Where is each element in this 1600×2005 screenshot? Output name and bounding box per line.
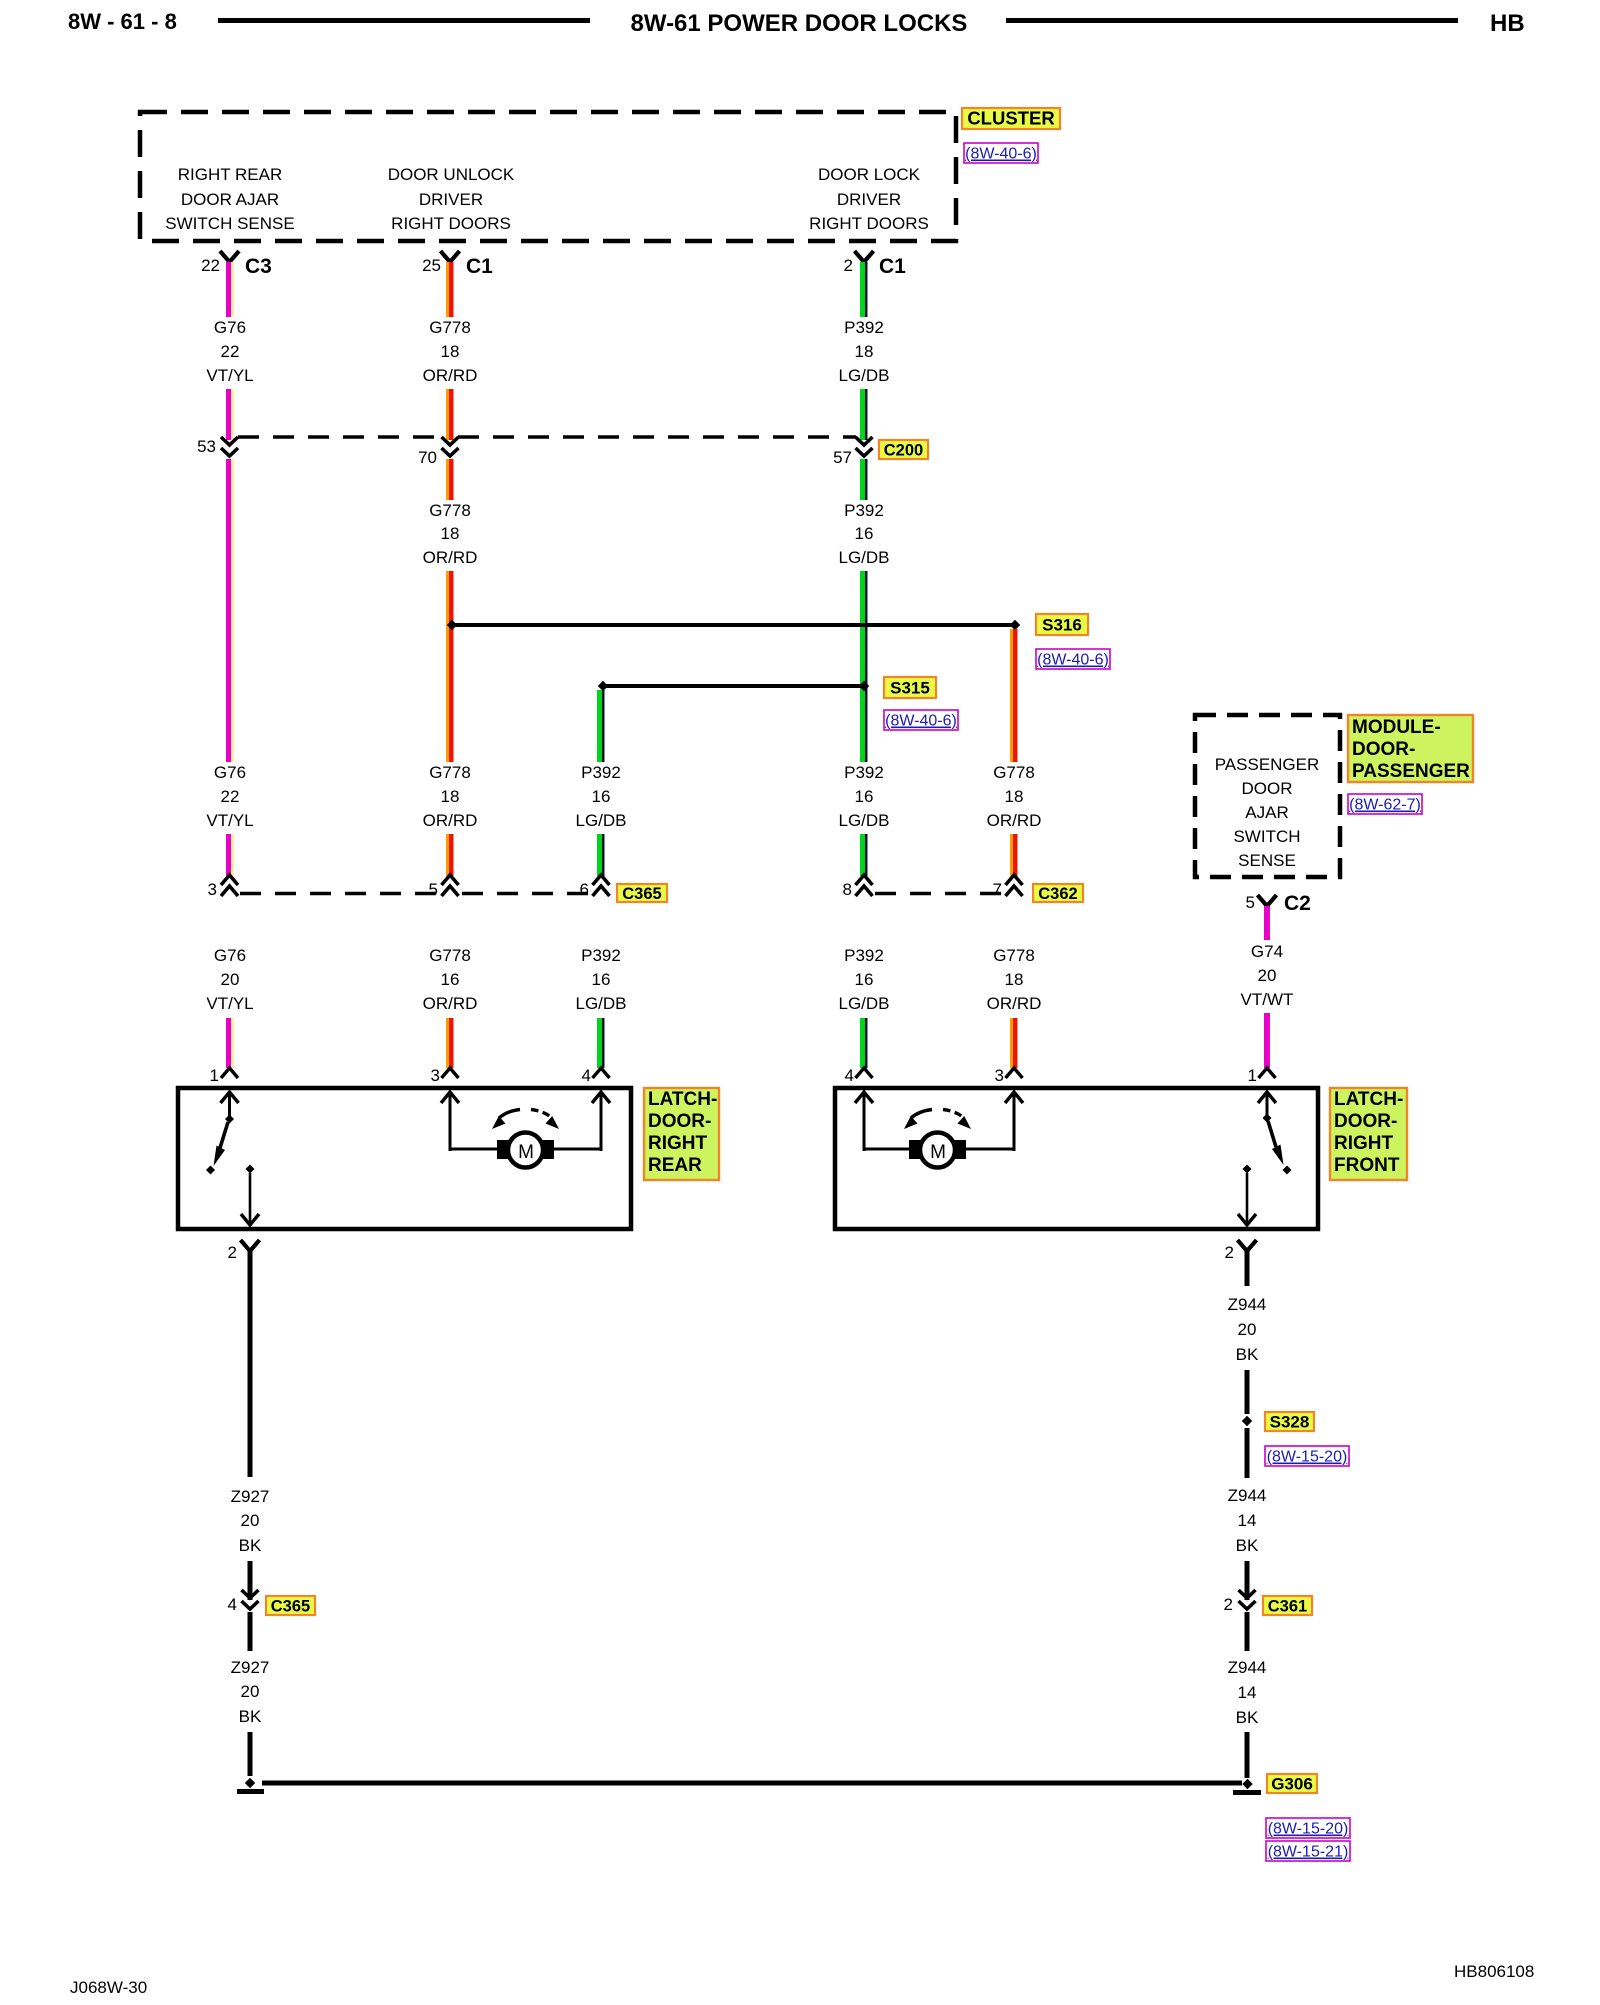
motor rotation arrows left latch xyxy=(499,1110,520,1119)
svg-text:OR/RD: OR/RD xyxy=(423,811,478,830)
wire P392 down through splices xyxy=(860,571,865,762)
svg-text:8: 8 xyxy=(843,880,852,899)
lock motor circuit right latch left branch xyxy=(863,1092,866,1151)
wire G76 to latch pin 1 xyxy=(226,1018,231,1068)
ajar switch arrow pin 1 xyxy=(228,1092,231,1116)
wire G778 below C200 xyxy=(446,459,449,500)
label LATCH-DOOR-RIGHT-REAR xyxy=(644,1088,719,1180)
svg-text:REAR: REAR xyxy=(648,1155,702,1176)
wire P392 to C362 xyxy=(860,834,865,876)
svg-text:DOOR LOCK: DOOR LOCK xyxy=(818,165,921,184)
reference (8W-40-6) for S316 xyxy=(1036,649,1110,669)
svg-text:20: 20 xyxy=(1238,1320,1257,1339)
motor rotation arrows right latch xyxy=(911,1110,932,1119)
svg-text:OR/RD: OR/RD xyxy=(987,994,1042,1013)
svg-text:(8W-40-6): (8W-40-6) xyxy=(965,146,1037,163)
reference (8W-15-20) for G306 xyxy=(1266,1818,1350,1838)
svg-text:4: 4 xyxy=(228,1595,237,1614)
svg-text:20: 20 xyxy=(221,970,240,989)
svg-text:8W-61 POWER DOOR LOCKS: 8W-61 POWER DOOR LOCKS xyxy=(631,10,968,37)
svg-text:57: 57 xyxy=(833,448,852,467)
connector C362 dashed line xyxy=(875,892,1003,896)
svg-text:AJAR: AJAR xyxy=(1245,803,1288,822)
svg-text:5: 5 xyxy=(1246,893,1255,912)
svg-text:(8W-15-20): (8W-15-20) xyxy=(1267,1449,1348,1466)
svg-text:DOOR UNLOCK: DOOR UNLOCK xyxy=(388,165,515,184)
wire G778 to right latch pin 3 xyxy=(1010,1018,1013,1068)
svg-text:2: 2 xyxy=(844,256,853,275)
wire Z927 20 BK from pin 2 xyxy=(248,1251,253,1477)
wire Z944 20 BK from pin 2 xyxy=(1245,1251,1250,1286)
svg-text:LG/DB: LG/DB xyxy=(838,811,889,830)
svg-text:18: 18 xyxy=(1005,970,1024,989)
svg-text:4: 4 xyxy=(582,1066,591,1085)
svg-text:MODULE-: MODULE- xyxy=(1352,717,1441,738)
wire Z944 to S328 xyxy=(1245,1370,1250,1414)
svg-text:C365: C365 xyxy=(271,1597,310,1615)
wire G778 to C362 xyxy=(1010,834,1013,876)
svg-text:OR/RD: OR/RD xyxy=(423,548,478,567)
svg-text:2: 2 xyxy=(1224,1595,1233,1614)
svg-text:C362: C362 xyxy=(1038,885,1077,903)
ground junction G306 xyxy=(1242,1779,1252,1789)
svg-text:20: 20 xyxy=(1258,966,1277,985)
svg-text:1: 1 xyxy=(1248,1066,1257,1085)
svg-text:P392: P392 xyxy=(581,946,621,965)
svg-text:2: 2 xyxy=(1225,1243,1234,1262)
svg-text:16: 16 xyxy=(592,787,611,806)
svg-text:VT/YL: VT/YL xyxy=(206,994,253,1013)
svg-text:HB806108: HB806108 xyxy=(1454,1962,1534,1981)
splice S315 bus line xyxy=(603,684,864,688)
svg-text:PASSENGER: PASSENGER xyxy=(1352,761,1470,782)
svg-text:LG/DB: LG/DB xyxy=(575,994,626,1013)
svg-text:4: 4 xyxy=(845,1066,854,1085)
svg-text:22: 22 xyxy=(201,256,220,275)
svg-text:S315: S315 xyxy=(890,678,930,697)
svg-text:C3: C3 xyxy=(245,255,272,278)
svg-text:Z944: Z944 xyxy=(1228,1486,1267,1505)
label S315 xyxy=(884,677,936,698)
ajar switch lever right latch xyxy=(1263,1114,1272,1123)
lock motor circuit right branch xyxy=(600,1092,603,1151)
svg-text:Z927: Z927 xyxy=(231,1487,270,1506)
svg-text:FRONT: FRONT xyxy=(1334,1155,1400,1176)
svg-text:BK: BK xyxy=(239,1536,262,1555)
splice S316 bus line xyxy=(452,623,1015,627)
ground bus wire xyxy=(262,1781,1242,1786)
svg-text:DOOR AJAR: DOOR AJAR xyxy=(181,190,279,209)
wire Z944 to ground G306 xyxy=(1245,1732,1250,1778)
label LATCH-DOOR-RIGHT-FRONT xyxy=(1330,1088,1407,1180)
wire G74 to latch pin 1 xyxy=(1264,1013,1270,1068)
svg-text:VT/YL: VT/YL xyxy=(206,811,253,830)
motor M right latch xyxy=(909,1140,921,1159)
svg-text:G778: G778 xyxy=(993,946,1035,965)
label C362 xyxy=(1033,884,1083,902)
svg-text:G778: G778 xyxy=(429,501,471,520)
motor M left latch xyxy=(497,1140,509,1159)
svg-text:RIGHT REAR: RIGHT REAR xyxy=(178,165,283,184)
reference (8W-62-7) for module xyxy=(1348,794,1422,814)
svg-text:18: 18 xyxy=(1005,787,1024,806)
svg-text:G306: G306 xyxy=(1271,1774,1313,1793)
wire Z944 below S328 xyxy=(1245,1428,1250,1478)
svg-text:8W - 61 - 8: 8W - 61 - 8 xyxy=(68,9,177,34)
svg-text:P392: P392 xyxy=(844,763,884,782)
svg-text:RIGHT DOORS: RIGHT DOORS xyxy=(391,214,511,233)
wire G778 continued xyxy=(446,389,449,440)
svg-text:VT/WT: VT/WT xyxy=(1241,990,1294,1009)
svg-text:(8W-15-21): (8W-15-21) xyxy=(1268,1844,1349,1861)
svg-text:C2: C2 xyxy=(1284,892,1311,915)
wire P392 16 LG/DB branch from S315 xyxy=(597,690,602,762)
svg-text:20: 20 xyxy=(241,1511,260,1530)
svg-text:16: 16 xyxy=(855,524,874,543)
svg-text:OR/RD: OR/RD xyxy=(987,811,1042,830)
svg-text:18: 18 xyxy=(441,342,460,361)
wire P392 to C365 xyxy=(597,834,602,876)
svg-text:DOOR: DOOR xyxy=(1242,779,1293,798)
header rule right xyxy=(1006,18,1458,23)
svg-text:LG/DB: LG/DB xyxy=(575,811,626,830)
svg-text:SWITCH: SWITCH xyxy=(1233,827,1300,846)
ajar switch lever xyxy=(225,1115,234,1124)
svg-text:DRIVER: DRIVER xyxy=(837,190,901,209)
svg-text:S328: S328 xyxy=(1270,1412,1310,1431)
svg-text:6: 6 xyxy=(580,880,589,899)
lock motor circuit left branch xyxy=(449,1092,452,1151)
svg-text:DOOR-: DOOR- xyxy=(1334,1111,1397,1132)
svg-text:RIGHT: RIGHT xyxy=(1334,1133,1394,1154)
svg-text:Z927: Z927 xyxy=(231,1658,270,1677)
component CLUSTER (dashed box) xyxy=(140,112,956,241)
svg-text:M: M xyxy=(518,1142,534,1163)
splice S328 xyxy=(1242,1416,1252,1426)
svg-text:LG/DB: LG/DB xyxy=(838,548,889,567)
label C361 xyxy=(1263,1596,1312,1615)
reference (8W-40-6) for S315 xyxy=(884,710,958,730)
wire G778 to S316 xyxy=(446,571,449,762)
svg-text:G74: G74 xyxy=(1251,942,1283,961)
ground bar left xyxy=(237,1789,264,1794)
svg-text:G76: G76 xyxy=(214,763,246,782)
svg-text:14: 14 xyxy=(1238,1511,1257,1530)
svg-text:OR/RD: OR/RD xyxy=(423,366,478,385)
svg-text:C365: C365 xyxy=(622,885,661,903)
wire Z927 to ground xyxy=(248,1732,253,1776)
svg-text:16: 16 xyxy=(441,970,460,989)
svg-text:(8W-40-6): (8W-40-6) xyxy=(1037,652,1109,669)
svg-text:DRIVER: DRIVER xyxy=(419,190,483,209)
svg-text:G76: G76 xyxy=(214,946,246,965)
ajar switch fixed contact to pin 2 right latch xyxy=(1243,1165,1252,1174)
svg-text:DOOR-: DOOR- xyxy=(648,1111,711,1132)
label CLUSTER xyxy=(962,108,1060,129)
ajar switch arrow right latch pin 1 xyxy=(1266,1092,1269,1116)
svg-text:BK: BK xyxy=(1236,1345,1259,1364)
header rule left xyxy=(218,18,590,23)
svg-text:70: 70 xyxy=(418,448,437,467)
svg-text:LG/DB: LG/DB xyxy=(838,366,889,385)
svg-text:SENSE: SENSE xyxy=(1238,851,1296,870)
svg-text:25: 25 xyxy=(422,256,441,275)
label MODULE-DOOR-PASSENGER xyxy=(1348,715,1473,782)
svg-text:18: 18 xyxy=(441,524,460,543)
svg-text:Z944: Z944 xyxy=(1228,1295,1267,1314)
svg-text:HB: HB xyxy=(1490,10,1525,37)
svg-text:P392: P392 xyxy=(844,318,884,337)
svg-text:(8W-62-7): (8W-62-7) xyxy=(1349,797,1421,814)
wire G778 18 OR/RD from C1 xyxy=(446,262,449,317)
svg-text:J068W-30: J068W-30 xyxy=(70,1978,147,1997)
wire G74 20 VT/WT from C2 xyxy=(1264,906,1270,940)
svg-text:18: 18 xyxy=(441,787,460,806)
wire G76 to C365 xyxy=(226,834,231,876)
svg-text:G778: G778 xyxy=(429,946,471,965)
svg-text:22: 22 xyxy=(221,342,240,361)
component LATCH-DOOR-RIGHT-REAR box xyxy=(178,1088,631,1229)
component MODULE-DOOR-PASSENGER (dashed box) xyxy=(1195,715,1340,877)
svg-text:14: 14 xyxy=(1238,1683,1257,1702)
svg-text:RIGHT DOORS: RIGHT DOORS xyxy=(809,214,929,233)
wire Z927 below C365 xyxy=(248,1612,253,1651)
connector C365 dashed line xyxy=(240,892,440,896)
reference (8W-15-20) for S328 xyxy=(1265,1446,1349,1466)
svg-text:20: 20 xyxy=(241,1682,260,1701)
svg-text:16: 16 xyxy=(855,787,874,806)
wire Z944 to C361 xyxy=(1245,1561,1250,1600)
label C200 xyxy=(879,440,928,459)
svg-text:3: 3 xyxy=(208,880,217,899)
wire G76 below C200 xyxy=(226,459,231,762)
svg-text:(8W-40-6): (8W-40-6) xyxy=(885,713,957,730)
svg-text:16: 16 xyxy=(592,970,611,989)
svg-text:P392: P392 xyxy=(844,501,884,520)
svg-text:16: 16 xyxy=(855,970,874,989)
svg-text:BK: BK xyxy=(239,1707,262,1726)
wire G778 to latch pin 3 xyxy=(446,1018,449,1068)
lock motor circuit right latch right branch xyxy=(1013,1092,1016,1151)
svg-text:G778: G778 xyxy=(429,763,471,782)
svg-text:BK: BK xyxy=(1236,1536,1259,1555)
wire P392 to latch pin 4 xyxy=(597,1018,602,1068)
svg-text:LATCH-: LATCH- xyxy=(1334,1089,1403,1110)
svg-text:5: 5 xyxy=(429,880,438,899)
svg-text:BK: BK xyxy=(1236,1708,1259,1727)
svg-text:SWITCH SENSE: SWITCH SENSE xyxy=(165,214,294,233)
svg-text:VT/YL: VT/YL xyxy=(206,366,253,385)
svg-text:DOOR-: DOOR- xyxy=(1352,739,1415,760)
svg-text:P392: P392 xyxy=(844,946,884,965)
svg-text:G778: G778 xyxy=(993,763,1035,782)
wire P392 to right latch pin 4 xyxy=(860,1018,865,1068)
svg-text:1: 1 xyxy=(210,1066,219,1085)
svg-text:S316: S316 xyxy=(1042,615,1082,634)
component LATCH-DOOR-RIGHT-FRONT box xyxy=(835,1088,1318,1229)
ground junction left xyxy=(245,1778,255,1788)
wire Z927 to C365 xyxy=(248,1561,253,1600)
label S328 xyxy=(1265,1412,1314,1431)
svg-text:G76: G76 xyxy=(214,318,246,337)
svg-text:P392: P392 xyxy=(581,763,621,782)
svg-text:3: 3 xyxy=(431,1066,440,1085)
label G306 xyxy=(1267,1774,1317,1793)
svg-text:22: 22 xyxy=(221,787,240,806)
svg-text:7: 7 xyxy=(993,880,1002,899)
reference (8W-15-21) for G306 xyxy=(1266,1841,1350,1861)
svg-text:G778: G778 xyxy=(429,318,471,337)
svg-text:C1: C1 xyxy=(466,255,493,278)
svg-text:OR/RD: OR/RD xyxy=(423,994,478,1013)
ajar switch fixed contact to pin 2 xyxy=(246,1165,255,1174)
svg-text:CLUSTER: CLUSTER xyxy=(967,107,1054,128)
svg-text:2: 2 xyxy=(228,1243,237,1262)
label C365 lower xyxy=(266,1596,315,1615)
svg-text:M: M xyxy=(930,1142,946,1163)
wire P392 continued xyxy=(860,389,865,440)
wire G778 18 OR/RD branch from S316 xyxy=(1010,629,1013,762)
svg-text:C1: C1 xyxy=(879,255,906,278)
wire P392 below C200 xyxy=(860,459,865,500)
wire G778 to C365 xyxy=(446,834,449,876)
ground bar G306 xyxy=(1233,1790,1261,1795)
connector C200 dashed line xyxy=(238,435,442,439)
svg-text:Z944: Z944 xyxy=(1228,1658,1267,1677)
svg-text:3: 3 xyxy=(995,1066,1004,1085)
reference (8W-40-6) for CLUSTER xyxy=(964,143,1038,163)
label C365 xyxy=(617,884,667,902)
svg-text:C361: C361 xyxy=(1268,1597,1307,1615)
svg-text:(8W-15-20): (8W-15-20) xyxy=(1268,1821,1349,1838)
wire Z944 below C361 xyxy=(1245,1612,1250,1651)
svg-text:53: 53 xyxy=(197,437,216,456)
svg-text:LG/DB: LG/DB xyxy=(838,994,889,1013)
svg-text:18: 18 xyxy=(855,342,874,361)
wire P392 18 LG/DB from C1 xyxy=(860,262,865,317)
label S316 xyxy=(1036,614,1088,635)
svg-text:RIGHT: RIGHT xyxy=(648,1133,708,1154)
svg-text:C200: C200 xyxy=(884,441,923,459)
wire G76 continued xyxy=(226,389,231,440)
wire G76 22 VT/YL from C3 xyxy=(226,262,231,317)
svg-text:PASSENGER: PASSENGER xyxy=(1215,755,1320,774)
svg-text:LATCH-: LATCH- xyxy=(648,1089,717,1110)
